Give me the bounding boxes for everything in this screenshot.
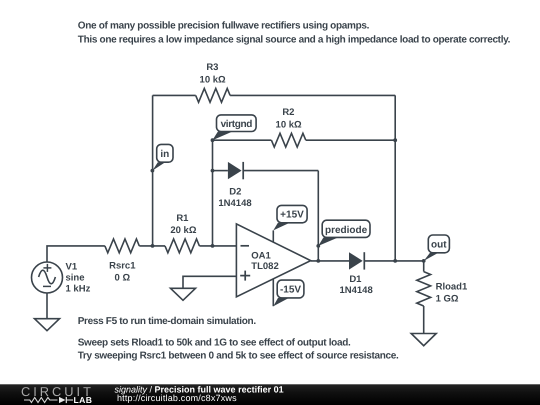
wire Rsrc1 to in node [139, 245, 165, 247]
diode D2 cathode wire [243, 170, 318, 172]
diode D2 anode wire [213, 170, 228, 172]
svg-text:LAB: LAB [74, 395, 93, 405]
D1 labels [339, 274, 372, 296]
diode D1 [349, 252, 364, 269]
diode D1 cathode wire to out [364, 260, 423, 262]
svg-text:Try sweeping Rsrc1 between 0 a: Try sweeping Rsrc1 between 0 and 5k to s… [78, 351, 399, 362]
logo resistor zigzag [24, 398, 58, 403]
svg-text:out: out [431, 239, 447, 250]
svg-text:10 kΩ: 10 kΩ [276, 119, 302, 130]
node out label [422, 235, 450, 263]
wire V1 top lead [47, 246, 105, 262]
+15V label [273, 205, 307, 230]
wire top loop with R3 [153, 94, 196, 96]
wire D2 down to output row [317, 171, 319, 261]
R2 labels [276, 107, 302, 130]
svg-text:virtgnd: virtgnd [221, 119, 253, 130]
svg-text:1 kHz: 1 kHz [66, 284, 91, 295]
wire out node down to Rload1 [423, 261, 425, 272]
node prediode label [316, 220, 370, 248]
svg-text:20 kΩ: 20 kΩ [170, 225, 196, 236]
D2 labels [218, 186, 251, 209]
svg-text:OA1: OA1 [251, 250, 271, 261]
wire R1 to op-amp minus input [199, 245, 236, 247]
node in label [151, 144, 174, 172]
wire op-amp plus input to ground [183, 276, 236, 288]
wire right vertical [394, 95, 396, 261]
diode D2 [228, 162, 243, 179]
-15V label [273, 280, 304, 306]
svg-text:Rsrc1: Rsrc1 [109, 261, 136, 272]
svg-text:10 kΩ: 10 kΩ [200, 74, 226, 85]
wire R2 right [306, 139, 395, 141]
svg-text:+15V: +15V [280, 210, 304, 221]
resistor R1 [165, 239, 199, 253]
ground below Rload1 [411, 334, 436, 346]
svg-text:1N4148: 1N4148 [218, 198, 251, 209]
OA1 labels [251, 250, 278, 272]
annotation text top [78, 21, 511, 46]
svg-text:1N4148: 1N4148 [339, 285, 372, 296]
wire virtgnd row left [213, 139, 272, 141]
svg-text:-15V: -15V [280, 285, 301, 296]
ground below V1 [35, 319, 60, 331]
node virtgnd label [211, 115, 257, 142]
svg-text:in: in [160, 149, 169, 160]
resistor Rload1 [417, 272, 431, 306]
op-amp V- pin stub [272, 279, 274, 306]
svg-text:sine: sine [66, 273, 85, 284]
wire left vertical (in net) [152, 95, 154, 246]
R1 labels [170, 213, 196, 236]
Rload1 labels [436, 282, 468, 305]
svg-text:Sweep sets Rload1 to 50k and 1: Sweep sets Rload1 to 50k and 1G to see e… [78, 338, 351, 349]
resistor Rsrc1 [105, 239, 139, 253]
wire R3 right to top-right corner [230, 94, 395, 96]
logo diode [59, 397, 66, 403]
resistor R3 [196, 89, 230, 103]
resistor R2 [271, 133, 305, 147]
svg-text:D1: D1 [349, 274, 362, 285]
svg-text:R2: R2 [282, 107, 294, 118]
V1 labels [66, 261, 91, 294]
op-amp V+ pin stub [272, 230, 274, 242]
svg-text:V1: V1 [66, 261, 78, 272]
svg-text:TL082: TL082 [251, 261, 278, 272]
wire V1 bottom lead [46, 293, 48, 319]
svg-text:Rload1: Rload1 [436, 282, 468, 293]
footer bar [0, 384, 540, 405]
wire center vertical from virtgnd to input row [212, 140, 214, 246]
Rsrc1 labels [109, 261, 136, 284]
svg-text:1 GΩ: 1 GΩ [436, 294, 459, 305]
svg-text:http://circuitlab.com/c8x7xws: http://circuitlab.com/c8x7xws [117, 393, 237, 403]
ground at op-amp plus input [171, 288, 196, 300]
junction dots [151, 138, 398, 262]
svg-text:0 Ω: 0 Ω [115, 273, 131, 284]
wire op-amp output to D1 [311, 260, 349, 262]
svg-text:One of many possible precision: One of many possible precision fullwave … [78, 21, 370, 32]
annotation text bottom [78, 316, 399, 361]
svg-text:R1: R1 [176, 213, 189, 224]
op-amp OA1 [236, 224, 310, 297]
R3 labels [200, 62, 226, 85]
voltage source V1 [32, 262, 63, 293]
svg-text:Press F5 to run time-domain si: Press F5 to run time-domain simulation. [78, 316, 257, 327]
svg-text:prediode: prediode [325, 225, 368, 236]
wire Rload1 to ground [423, 306, 425, 334]
svg-text:R3: R3 [206, 62, 218, 73]
svg-text:This one requires a low impeda: This one requires a low impedance signal… [78, 35, 511, 46]
svg-text:D2: D2 [229, 186, 241, 197]
